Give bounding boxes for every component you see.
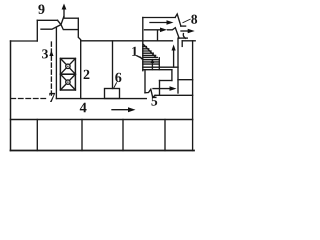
right wall cap	[182, 40, 195, 42]
wire tower top	[64, 17, 78, 19]
cell divider 1	[36, 120, 38, 151]
vertical x171.9	[171, 70, 173, 81]
label 4	[80, 103, 87, 113]
dashed line 3	[50, 42, 52, 97]
damper 8 tail	[183, 34, 185, 39]
duct 8 exit top	[181, 25, 186, 27]
leader arrow from 1	[137, 56, 141, 58]
wire left box top	[11, 40, 38, 42]
fan 2 upper	[60, 58, 75, 74]
label 5	[151, 97, 157, 106]
wire exhaust channel left wall	[36, 20, 38, 41]
duct line with arrow after 5	[153, 88, 170, 90]
arrow A1 in duct 8	[150, 22, 168, 24]
damper 8 upper flap	[175, 14, 181, 26]
wire left outer wall	[10, 41, 12, 151]
bottom box bottom line	[11, 150, 195, 152]
cell divider 3	[122, 120, 124, 151]
leader line of label 6	[114, 83, 117, 89]
exit arrow 8	[181, 30, 189, 32]
arrow in channel 4	[112, 109, 129, 111]
damper 8 lower flap	[168, 28, 180, 38]
duct 8 exit bottom	[179, 37, 187, 39]
feeder box 6	[105, 89, 120, 99]
label 2	[84, 70, 90, 79]
downcomer to flap 5	[144, 71, 146, 93]
duct 8 top line	[143, 17, 175, 19]
cell divider 4	[164, 120, 166, 151]
label 7	[49, 93, 55, 102]
label 3	[42, 49, 48, 58]
arrow up from damper 9	[63, 9, 65, 18]
wire duct9 top-left	[37, 19, 57, 21]
dashed line 7	[11, 98, 47, 100]
vertical x159.5	[159, 81, 161, 96]
arrow A2 in duct 8	[145, 29, 162, 31]
louver slats bottom	[143, 67, 178, 70]
arrow up inside louver 1	[151, 62, 153, 70]
right wall	[192, 41, 194, 151]
leader to label 8	[183, 19, 190, 23]
up arrow right chamber	[173, 50, 175, 67]
label 6	[115, 73, 121, 82]
label 9	[38, 5, 44, 14]
louver slats middle	[143, 58, 160, 70]
louver slats upper	[143, 47, 158, 58]
duct bottom line after 5	[155, 94, 193, 96]
shelf y80.5	[160, 80, 172, 82]
wire feed pipe to box 6	[112, 41, 114, 89]
label 1	[132, 47, 137, 56]
louver stack 1 left wall	[142, 18, 144, 71]
damper 9 flaps	[41, 17, 78, 30]
label 8	[191, 15, 197, 24]
inner wall right chamber	[177, 38, 179, 93]
arrowhead 3	[49, 51, 53, 57]
wire tower left wall	[55, 27, 57, 98]
wire channel top line	[56, 98, 146, 100]
flap valve 5	[145, 89, 155, 97]
bottom box top line	[11, 119, 193, 121]
cell divider 2	[81, 120, 83, 151]
shelf between walls y79.7	[178, 79, 193, 81]
riser wall under duct 8	[157, 31, 159, 41]
wire tower right wall upper	[78, 18, 80, 98]
wire ceiling of middle chamber	[81, 40, 173, 42]
stub under cap	[181, 41, 183, 47]
fan 2 lower	[60, 74, 75, 90]
louver stack 1 hypotenuse	[143, 44, 156, 58]
